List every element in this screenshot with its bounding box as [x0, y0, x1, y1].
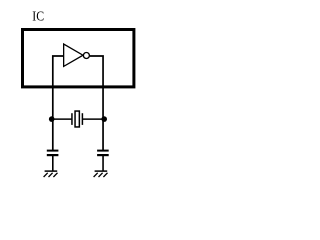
- svg-text:IC: IC: [32, 9, 44, 24]
